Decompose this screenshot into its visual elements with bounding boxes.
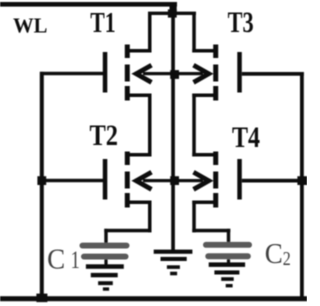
transistor T4 channel middle segment: [213, 172, 218, 189]
wire T3-T4 link: [192, 94, 196, 157]
svg-text:T4: T4: [232, 121, 260, 154]
transistor T2 channel middle segment: [125, 172, 130, 189]
arrow T3 bulk arrowhead: [194, 65, 209, 82]
arrow T1 bulk arrowhead: [136, 65, 151, 82]
wire T4 source lead: [192, 201, 217, 205]
wire T4 drain lead: [192, 153, 217, 157]
ground C1 bar2: [91, 273, 118, 277]
wire T3 drain riser: [192, 13, 196, 53]
ground center bar3: [167, 265, 180, 269]
wire bottom ground bus: [0, 296, 307, 301]
wire C2 plate-to-ground stub: [227, 259, 230, 265]
wire right bit line: [300, 72, 304, 301]
wire T4 bulk lead: [175, 179, 203, 182]
wire C1 top stub: [104, 229, 107, 244]
wire T1 drain riser: [148, 13, 152, 53]
svg-text:1: 1: [71, 247, 80, 274]
wire T3 bulk lead: [175, 72, 203, 75]
ground C2 bar3: [221, 277, 234, 281]
arrow T4 bulk arrowhead: [194, 172, 209, 189]
node left bit line / T2 gate dot: [37, 176, 46, 185]
wire T1 source lead: [130, 94, 152, 98]
transistor T4 channel bottom segment: [213, 193, 218, 208]
ground C1 bar3: [98, 281, 113, 285]
node top junction dot: [168, 9, 177, 17]
svg-text:T2: T2: [90, 119, 119, 152]
wire T1 gate lead: [40, 72, 103, 75]
wire T1 drain lead: [130, 49, 152, 53]
wire T2 gate lead: [41, 179, 103, 182]
svg-text:T3: T3: [228, 6, 254, 39]
svg-text:WL: WL: [13, 13, 47, 37]
svg-text:T1: T1: [90, 7, 115, 39]
wire T1-T2 link: [148, 94, 152, 157]
transistor T4 channel top segment: [213, 152, 218, 166]
ground C2 bar2: [214, 270, 239, 274]
wire C2 top stub: [227, 229, 230, 244]
arrow T2 bulk arrowhead: [136, 172, 151, 189]
capacitor C2 top plate: [203, 242, 252, 248]
svg-text:C: C: [265, 239, 283, 270]
ground center bar1: [154, 250, 193, 254]
wire T2 source run to C1: [104, 229, 151, 233]
transistor T3 channel middle segment: [213, 65, 218, 82]
node right bit line / T4 gate dot: [297, 176, 307, 185]
ground C2 bar4: [226, 284, 233, 287]
transistor T2 channel bottom segment: [125, 193, 130, 208]
ground center bar2: [161, 257, 187, 261]
svg-text:C: C: [47, 243, 65, 275]
wire T2 source drop: [148, 201, 152, 233]
transistor T3 gate bar: [237, 52, 242, 93]
transistor T3 channel bottom segment: [213, 86, 218, 101]
wire top link rail: [148, 12, 196, 15]
ground C1 bar4: [103, 287, 109, 290]
svg-text:2: 2: [283, 248, 291, 270]
wire center storage column: [171, 13, 175, 250]
ground center bar4: [170, 272, 177, 276]
ground C2 bar1: [209, 262, 245, 267]
wire T2 drain lead: [130, 153, 152, 157]
wire T4 gate lead: [242, 179, 304, 183]
wire word line WL (thick top bus): [0, 2, 177, 7]
node bottom-left dot: [36, 294, 47, 303]
transistor T1 gate bar: [103, 52, 108, 93]
transistor T2 gate bar: [103, 159, 108, 200]
wire T4 source drop: [192, 201, 196, 233]
capacitor C1 bottom plate: [81, 254, 129, 260]
transistor T1 channel top segment: [125, 45, 130, 59]
wire T1 bulk lead: [143, 72, 172, 75]
wire WL drop to top node: [170, 5, 177, 14]
node row1 center dot: [170, 70, 179, 79]
wire T3 gate lead: [242, 72, 304, 76]
wire T3 drain lead: [192, 49, 217, 53]
wire T2 bulk lead: [143, 179, 172, 182]
wire T4 source run to C2: [192, 229, 230, 233]
capacitor C1 top plate: [80, 243, 130, 249]
transistor T1 channel bottom segment: [125, 86, 130, 101]
ground C1 bar1: [86, 264, 124, 269]
transistor T3 channel top segment: [213, 45, 218, 59]
capacitor C2 bottom plate: [205, 253, 251, 259]
transistor T4 gate bar: [237, 159, 242, 200]
transistor T1 channel middle segment: [125, 65, 130, 82]
wire C1 plate-to-ground stub: [104, 259, 107, 266]
wire left bit line: [40, 72, 44, 299]
node row2 center dot: [170, 176, 179, 185]
transistor T2 channel top segment: [125, 152, 130, 166]
wire T3 source lead: [192, 94, 217, 98]
wire T2 source lead: [130, 201, 152, 205]
